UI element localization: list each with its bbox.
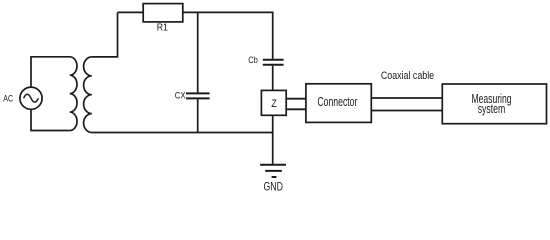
wire: secondary top jog to riser <box>92 12 118 57</box>
wire: AC source bottom to primary winding <box>31 109 70 130</box>
transformer primary winding <box>70 57 77 131</box>
svg-text:Cb: Cb <box>248 55 258 65</box>
wire: Z box bottom to ground <box>272 115 274 164</box>
wire: top rail from R1 to Cb corner <box>183 11 274 13</box>
wire: coaxial cable lower <box>371 110 442 112</box>
wire: bottom rail <box>92 132 274 134</box>
transformer secondary winding <box>84 57 92 133</box>
capacitor Cb <box>263 60 284 65</box>
resistor R1 <box>143 4 183 22</box>
svg-text:CX: CX <box>175 90 186 101</box>
ground <box>260 165 286 177</box>
sine wave inside AC source <box>24 94 39 102</box>
svg-text:Z: Z <box>271 98 277 110</box>
capacitor CX <box>186 93 210 98</box>
wire: Z to connector upper <box>286 98 306 100</box>
wire: top rail left segment to R1 <box>118 11 144 13</box>
wire: coaxial cable upper <box>371 97 442 99</box>
wire: Z to connector lower <box>286 108 306 110</box>
impedance Z box <box>261 90 286 115</box>
wire: Cb drop from top rail corner <box>272 12 274 59</box>
wire: CX drop from top rail <box>197 12 199 92</box>
svg-text:system: system <box>478 102 506 116</box>
wire: CX bottom to bottom rail <box>197 99 199 132</box>
AC source <box>20 87 42 109</box>
wire: Cb bottom to Z box <box>272 66 274 91</box>
wire: AC source top to primary winding <box>31 57 70 87</box>
svg-text:AC: AC <box>3 94 13 104</box>
svg-text:Coaxial cable: Coaxial cable <box>381 70 434 82</box>
connector box <box>306 84 371 123</box>
svg-text:R1: R1 <box>157 22 169 33</box>
svg-text:GND: GND <box>264 180 284 193</box>
measuring system box <box>442 84 546 124</box>
svg-text:Connector: Connector <box>317 95 357 109</box>
